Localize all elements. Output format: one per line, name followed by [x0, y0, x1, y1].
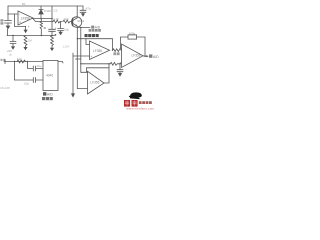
wire U4 plus vertical [77, 28, 87, 89]
resistor R5 [110, 62, 120, 65]
node rail end [55, 34, 57, 36]
node rail mid [27, 61, 28, 62]
node bottom rail left [14, 61, 15, 62]
svg-text:9013: 9013 [77, 19, 84, 23]
wire rail left terminal [4, 59, 6, 63]
svg-text:10µ: 10µ [36, 64, 41, 68]
wire emitter output [77, 27, 90, 29]
node cap tap [51, 18, 52, 19]
wire bottom branch [15, 79, 44, 81]
svg-text:LF356: LF356 [132, 54, 141, 58]
resistor R8 vertical [51, 36, 54, 48]
node filter cap [119, 63, 120, 64]
resistor R6 [17, 60, 25, 63]
wire bottom rail [4, 61, 43, 63]
wire U4 feedback [87, 68, 110, 73]
svg-text:LF356: LF356 [93, 49, 102, 53]
label output text row1 [91, 26, 94, 29]
svg-text:CN-108: CN-108 [0, 86, 10, 90]
resistor R4 box [128, 35, 137, 39]
svg-text:±15V: ±15V [63, 45, 70, 49]
ground below op-amp U1 [25, 26, 27, 29]
label R9 dash [44, 27, 46, 29]
watermark small dark text [139, 101, 142, 104]
ground under mic [7, 23, 9, 25]
wire U3 feedback right [137, 37, 145, 56]
label left edge mark [0, 59, 2, 61]
capacitor C6 [117, 64, 123, 73]
wire U3 feedback left [121, 37, 129, 48]
node L1 left [80, 63, 81, 64]
label output text row2 [89, 29, 92, 32]
svg-text:+: + [28, 25, 30, 29]
svg-text:R1: R1 [22, 2, 26, 6]
wire top supply rail [8, 5, 83, 7]
op-amp U1 [18, 11, 33, 25]
wire U4 output up [104, 64, 109, 83]
node emitter junction [80, 27, 81, 28]
svg-text:100: 100 [63, 17, 68, 21]
ground under R8 [50, 48, 54, 51]
wire cross connector [76, 58, 81, 60]
capacitor C7 series [33, 66, 43, 71]
transistor Q1 [71, 17, 81, 27]
ground under C4 [58, 32, 62, 36]
svg-text:47µ: 47µ [86, 7, 91, 11]
svg-text:A/D: A/D [47, 93, 53, 97]
wire feedback node line [33, 18, 53, 20]
diode D1 [40, 6, 42, 19]
ground under C5 [11, 46, 15, 49]
resistor R3 [113, 49, 122, 52]
capacitor C3 collector bypass [80, 6, 86, 13]
resistor R7 vertical [24, 36, 27, 47]
svg-text:10µ: 10µ [64, 28, 69, 32]
svg-text:+: + [55, 26, 57, 30]
ground under branch [71, 93, 75, 97]
wire mic to lower rail [6, 29, 8, 36]
node rail-cap [12, 35, 13, 36]
wire left branch down [14, 62, 16, 81]
wire mid branch down [28, 62, 34, 69]
svg-text:10µ: 10µ [24, 81, 29, 85]
wire U2 feedback [77, 39, 112, 51]
svg-text:4.7k: 4.7k [53, 17, 59, 21]
label IC bottom text row2 [42, 97, 45, 100]
capacitor C2 [49, 6, 56, 36]
capacitor C5 [10, 36, 16, 47]
wire U2 plus input [73, 55, 90, 57]
svg-text:1M: 1M [28, 39, 33, 43]
capacitor C4 bypass [58, 22, 64, 32]
svg-text:4046: 4046 [46, 73, 53, 77]
op-amp U3 [122, 44, 144, 68]
label IC bottom text row1 [43, 92, 46, 95]
svg-text:10k: 10k [17, 57, 22, 61]
capacitor C1 mic [5, 21, 12, 23]
wire mic drop [7, 6, 9, 20]
label stage2 heading [85, 34, 88, 37]
wire U3 output [143, 55, 147, 57]
resistor R1 4.7k [53, 20, 62, 23]
label mic [0, 19, 3, 21]
resistor R9 feedback lower [40, 19, 42, 36]
watermark logo cap [129, 92, 142, 99]
wire L1 filter line [81, 63, 110, 65]
svg-text:C2: C2 [54, 9, 58, 13]
op-amp U4 [88, 71, 105, 94]
watermark red characters [124, 100, 155, 110]
svg-text:1N60: 1N60 [44, 9, 52, 13]
wire lower rail [7, 35, 55, 37]
ground under R7 [23, 47, 27, 50]
node feedback tap [77, 38, 78, 39]
wire emitter down vertical [81, 28, 88, 73]
svg-text:100k: 100k [129, 31, 136, 35]
node U4 out [108, 63, 109, 64]
node U2 out [112, 50, 113, 51]
wire IC right stub [58, 62, 63, 64]
op-amp U2 [90, 41, 110, 60]
label R3 value [113, 52, 116, 55]
capacitor C8 series [33, 78, 35, 83]
label U3 output text [149, 54, 152, 57]
svg-text:+: + [90, 55, 92, 59]
svg-text:www.elecfans.com: www.elecfans.com [127, 106, 155, 110]
wire to U3 plus [120, 62, 122, 64]
wire ground branch vertical [72, 53, 74, 93]
wire output to base [33, 19, 53, 22]
wire to op-amp inverting input [8, 13, 18, 15]
small text labels [0, 2, 159, 100]
resistor R2 100 [63, 20, 72, 23]
node mic junction [7, 13, 8, 14]
svg-text:A/D: A/D [153, 55, 159, 59]
IC U5 [43, 61, 58, 91]
svg-text:LF356: LF356 [90, 81, 99, 85]
svg-text:+: + [19, 21, 21, 25]
node rail-R8 [51, 35, 52, 36]
ground under C3 [81, 13, 85, 16]
wire bias branch [15, 14, 26, 27]
node U3 out [144, 56, 145, 57]
node zener tap [40, 18, 41, 19]
node R9 rail [41, 35, 42, 36]
ground under C6 [118, 73, 122, 77]
svg-text:LF356: LF356 [21, 17, 30, 21]
